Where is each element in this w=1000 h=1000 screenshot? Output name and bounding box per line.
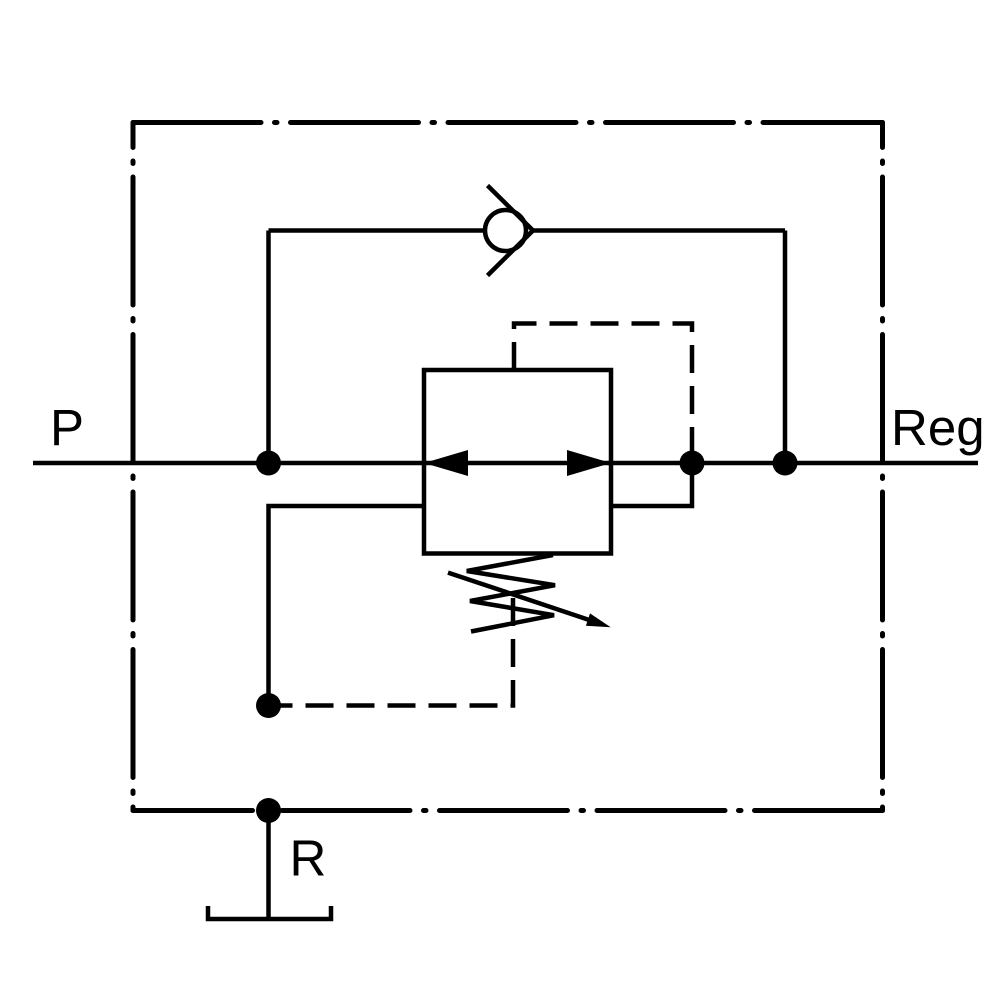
svg-text:R: R	[290, 830, 327, 887]
node P-junction (left riser on main line)	[256, 451, 281, 476]
spring	[467, 555, 555, 632]
adjustment arrow head	[586, 613, 611, 627]
check valve ball (circle)	[485, 210, 526, 251]
enclosure boundary (dash-dot frame) top edge	[133, 120, 883, 125]
wire: box lower-left port to drain riser	[269, 506, 425, 706]
node right riser on main line	[773, 451, 798, 476]
regulator valve body (box)	[424, 370, 611, 554]
wire: check valve branch right segment	[533, 228, 785, 233]
arrow right inside box	[567, 450, 611, 476]
svg-text:Reg: Reg	[891, 399, 985, 456]
adjustment arrow shaft	[448, 573, 590, 621]
enclosure boundary bottom edge	[133, 808, 883, 813]
enclosure boundary right edge	[880, 123, 885, 811]
wire: drain riser to tank	[266, 811, 271, 920]
node drain pilot junction	[256, 693, 281, 718]
wire: box lower-right port to downstream node	[611, 463, 692, 506]
pilot line (dashed) from spring to drain node	[280, 598, 513, 706]
wire: check valve branch left segment	[269, 228, 486, 233]
check valve seat (V)	[488, 186, 534, 276]
arrow left inside box	[424, 450, 468, 476]
wire: right riser from check valve branch to main line	[783, 231, 788, 464]
node pilot junction on main line	[680, 451, 705, 476]
svg-text:P: P	[50, 399, 84, 456]
enclosure boundary left edge	[131, 123, 136, 811]
wire: left riser from check valve branch to main line	[266, 231, 271, 464]
node bottom border junction	[256, 798, 281, 823]
pilot line (dashed) from box top to downstream node	[514, 324, 692, 461]
wire: main line P to Reg	[33, 461, 978, 466]
tank symbol	[208, 906, 331, 919]
